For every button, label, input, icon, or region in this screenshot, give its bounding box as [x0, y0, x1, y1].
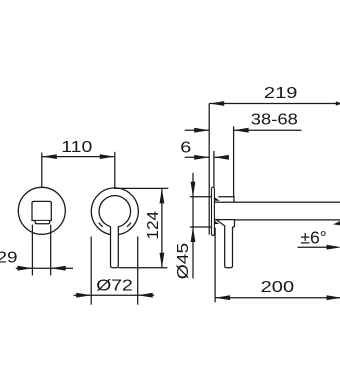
arrowhead 38-68 right	[234, 128, 249, 133]
arrowhead O72 right	[138, 293, 153, 298]
mixer ring inner circle	[99, 196, 131, 228]
ring highlight tick left	[99, 223, 103, 227]
svg-text:38-68: 38-68	[251, 111, 298, 128]
arrowhead O45 bottom	[191, 227, 196, 242]
extension line O45 top	[190, 196, 211, 198]
extension line 110 right	[114, 152, 116, 188]
lever bar mask (front view)	[111, 221, 119, 267]
handle knob lip	[35, 221, 49, 224]
extension line 200	[214, 228, 216, 303]
arrowhead 29 left	[17, 266, 32, 271]
extension line 29 left	[31, 225, 33, 276]
lever bar (front view)	[111, 226, 119, 268]
arrowhead 124 bottom	[160, 253, 165, 268]
extension line 38-68	[233, 126, 235, 197]
body cylinder top edge	[218, 197, 234, 203]
svg-text:±6°: ±6°	[300, 227, 326, 247]
dimension line 219	[209, 103, 340, 105]
escutcheon plate (side view)	[212, 187, 215, 235]
wall line (side view)	[208, 104, 210, 235]
svg-text:Ø45: Ø45	[175, 243, 192, 280]
arrowhead 219 right (clipped at edge)	[336, 101, 340, 105]
dimension line 124	[161, 188, 163, 267]
swivel arrow fragment at spout end	[333, 221, 340, 226]
arrowhead 200 right	[327, 295, 340, 300]
leader line +-6 degrees	[298, 246, 335, 248]
arrowhead 219	[209, 101, 224, 106]
cone wedge bottom	[214, 221, 219, 225]
extension line 124 top	[114, 187, 168, 189]
dimension line O72	[74, 294, 155, 296]
svg-text:6: 6	[180, 140, 191, 157]
svg-text:200: 200	[261, 279, 295, 296]
cone wedge top	[214, 197, 220, 201]
extension line O45 bottom	[190, 226, 211, 228]
extension line O72 left	[90, 237, 92, 305]
svg-text:219: 219	[264, 85, 298, 102]
extension line 124 bottom	[118, 267, 167, 269]
extension line 6	[213, 151, 215, 187]
handle escutcheon circle A (front view)	[18, 187, 65, 234]
dimension line 6 left part	[185, 156, 210, 158]
dimension line 200	[215, 297, 340, 299]
arrowhead 6 left	[194, 155, 209, 160]
arrowhead O45 top	[191, 182, 196, 197]
mixer ring outer circle B	[91, 188, 138, 235]
arrowhead O72 left	[76, 293, 91, 298]
arrowhead +-6 degrees	[327, 245, 340, 250]
arrowhead 110 left	[42, 154, 57, 159]
arrowhead 29 right	[51, 266, 66, 271]
arrowhead 110 right	[100, 154, 115, 159]
dimension line O45	[192, 173, 194, 279]
dimension line 6 right part	[214, 156, 228, 158]
arrowhead 124 top	[160, 188, 165, 203]
handle knob front face	[32, 201, 51, 220]
arrowhead 6 right	[214, 155, 229, 160]
extension line 110 left	[41, 153, 43, 187]
extension line O72 right	[137, 237, 139, 305]
svg-text:124: 124	[145, 211, 162, 240]
dimension line 38-68 left part	[185, 129, 210, 131]
extension line 29 right	[50, 225, 52, 276]
spout (side view)	[214, 202, 340, 220]
dimension line 38-68 right part	[234, 129, 302, 131]
ring highlight tick right	[127, 223, 131, 227]
svg-text:110: 110	[61, 139, 92, 156]
arrowhead 200 left	[215, 295, 230, 300]
lever (side view)	[216, 220, 234, 268]
arrowhead 38-68 left	[194, 128, 209, 133]
svg-text:29: 29	[0, 250, 18, 267]
dimension line 29	[16, 267, 73, 269]
dimension line 110	[42, 156, 115, 158]
svg-text:Ø72: Ø72	[96, 277, 133, 294]
